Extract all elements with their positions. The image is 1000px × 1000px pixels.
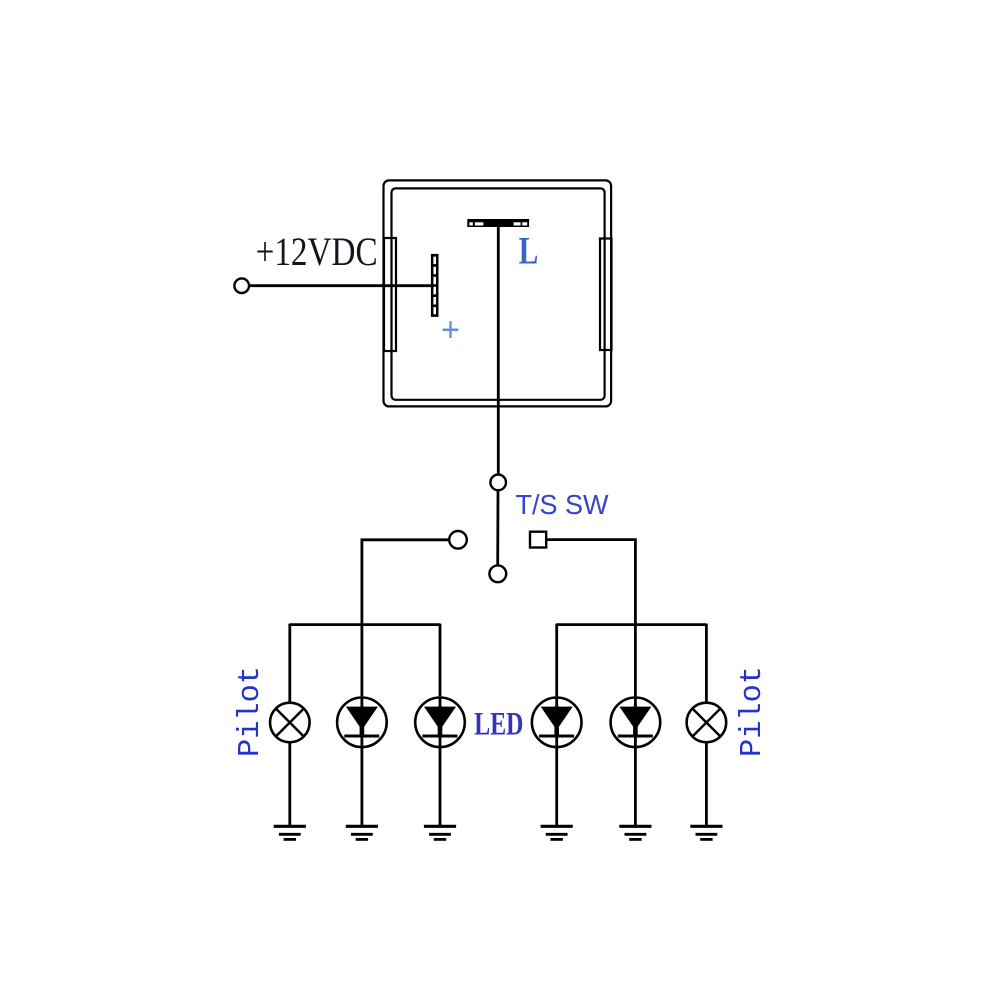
wire LED D3 to ground [555,738,558,827]
ground (LED D1) [346,826,378,839]
svg-text:Pilot: Pilot [233,666,268,757]
relay left connector slot [384,238,396,351]
switch left throw terminal [449,531,467,549]
LED D3 [532,696,582,747]
LED D4 [611,696,661,747]
relay internal terminal bar [431,254,439,317]
svg-text:+: + [441,311,460,349]
svg-text:T/S SW: T/S SW [516,489,610,520]
+12VDC input terminal [234,278,249,293]
wire switch branch through bus to LED D4 [634,625,637,697]
pilot lamp right [687,703,727,743]
svg-text:+12VDC: +12VDC [256,229,378,274]
wire from +12VDC terminal to relay bar [249,284,431,287]
relay right connector slot [600,239,612,351]
wire LED D1 to ground [360,738,363,827]
wire LED D2 to ground [439,738,442,827]
relay U1 outer case [384,180,612,406]
switch right throw terminal [530,532,546,548]
relay top terminal plate [467,219,529,227]
svg-text:L: L [519,228,539,272]
pilot lamp left [270,703,310,743]
wire switch branch through bus to LED D1 [360,625,363,697]
ground (LED D3) [541,826,573,839]
wire bus to LED D2 [439,624,442,697]
wire bus to pilot lamp left [288,624,291,704]
wire bus to LED D3 [555,624,558,697]
wire LED D4 to ground [634,738,637,827]
wire left throw to left branch [362,540,449,625]
wire right throw to right branch [546,540,635,625]
LED D1 [337,696,387,747]
switch bottom terminal node [489,565,506,582]
svg-text:Pilot: Pilot [735,666,770,757]
relay U1 inner case [392,188,605,399]
switch top terminal node [490,475,506,491]
wire from relay L plate down to switch [497,227,500,475]
LED D2 [415,696,465,747]
ground (LED D2) [424,826,456,839]
wire bus to pilot lamp right [705,624,708,704]
ground (pilot right) [690,826,722,839]
left bus wire [290,623,440,626]
switch arm wire [496,491,499,566]
wire pilot lamp right to ground [705,742,708,826]
ground (LED D4) [619,826,651,839]
wire pilot lamp left to ground [288,742,291,826]
ground (pilot left) [274,826,306,839]
right bus wire [557,623,707,626]
svg-text:LED: LED [474,707,523,743]
